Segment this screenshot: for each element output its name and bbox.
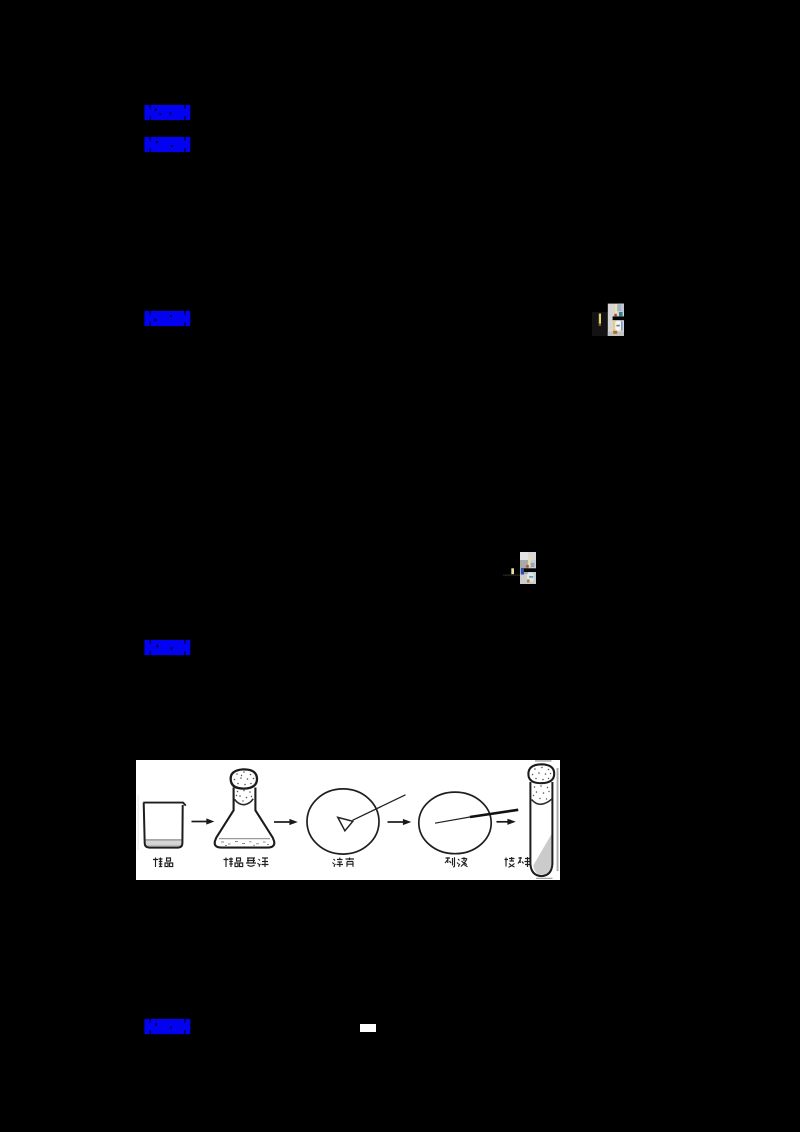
label 接种 (505, 857, 531, 867)
formula image 2: fraction 1/2 with gray background (500, 545, 560, 595)
blue header 5 (【详解】) (144, 1018, 191, 1035)
arrow 2 (274, 821, 290, 823)
inoculation needle (435, 817, 472, 824)
test tube cotton plug ball (528, 764, 554, 783)
label 划线 (445, 857, 468, 867)
faint left edge shadow (138, 795, 139, 850)
test tube top gray band (535, 760, 552, 762)
spreader head triangle (338, 817, 353, 830)
test tube gray shading (533, 834, 551, 875)
blue header 2 (【详解】) (144, 136, 191, 153)
plug inside tube (532, 799, 553, 804)
test tube walls (530, 782, 552, 876)
beaker outline (143, 803, 186, 806)
diagram image: dilution/plating procedure (136, 760, 560, 880)
arrow 4 (497, 821, 509, 823)
flask liquid band (219, 838, 270, 840)
blue header 4 (【点睛】) (144, 639, 191, 656)
label 样品 (153, 858, 173, 868)
flask neck + cone outline (215, 788, 275, 848)
petri dish 2 (streaking) (419, 792, 491, 854)
petri dish 1 (spreading) (307, 789, 379, 854)
formula image 1: fraction 1/8 with gray background (588, 298, 652, 346)
plug inside neck (234, 799, 253, 805)
blue header 1 (【分析】) (144, 104, 191, 121)
spreader handle (353, 795, 406, 821)
arrow 1 (192, 821, 208, 823)
beaker liquid (146, 840, 182, 847)
blue header 3 (【详解】) (144, 310, 191, 327)
flask cotton plug ball (231, 769, 257, 788)
arrow 3 (388, 821, 404, 823)
label 涂布 (333, 858, 355, 868)
test tube shadow right (557, 768, 559, 871)
under tube shadow line (536, 878, 553, 879)
small white dash image (360, 1024, 376, 1032)
label 样品悬液 (224, 858, 269, 868)
